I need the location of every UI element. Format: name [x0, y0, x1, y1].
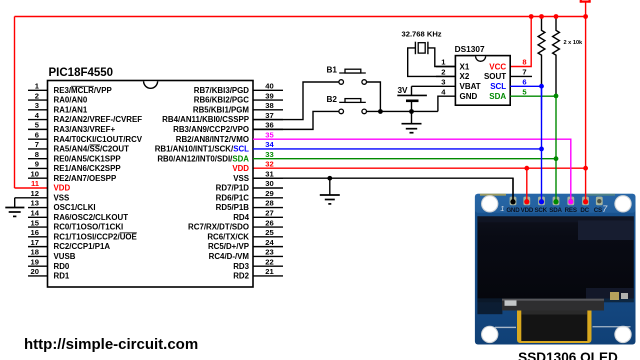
svg-text:RC5/D+/VP: RC5/D+/VP: [208, 242, 249, 251]
svg-text:2: 2: [35, 91, 39, 100]
resistor R1 10k (SCL pullup): [538, 17, 545, 87]
svg-text:3: 3: [35, 101, 39, 110]
svg-text:RD3: RD3: [233, 262, 249, 271]
ground at VSS pin31: [327, 176, 332, 181]
pin 38 right: [253, 109, 283, 111]
svg-text:CS: CS: [594, 207, 602, 214]
VDD power rail (red net): [15, 16, 586, 18]
node rail-R2 junction: [554, 14, 559, 19]
wire VBAT row: [412, 85, 456, 87]
svg-text:34: 34: [265, 140, 274, 149]
svg-text:RA1/AN1: RA1/AN1: [54, 105, 88, 114]
svg-text:VUSB: VUSB: [54, 252, 76, 261]
svg-text:6: 6: [35, 130, 39, 139]
node rail-DC junction: [583, 14, 588, 19]
svg-text:SDA: SDA: [549, 207, 562, 214]
svg-text:7: 7: [35, 140, 39, 149]
node OLED RES pad: [568, 199, 573, 204]
pin 12 left: [15, 197, 48, 199]
svg-text:SCL: SCL: [490, 82, 506, 91]
junction buttons: [378, 109, 383, 114]
svg-text:RD2: RD2: [233, 272, 249, 281]
svg-text:RD4: RD4: [233, 213, 249, 222]
wire VDD riser to DC: [585, 2, 587, 202]
battery B3 3V: [411, 86, 413, 95]
svg-text:13: 13: [31, 199, 39, 208]
pin 24 right: [253, 246, 283, 248]
node OLED GND pad: [510, 199, 515, 204]
svg-text:RC6/TX/CK: RC6/TX/CK: [207, 232, 249, 241]
svg-text:32: 32: [265, 160, 273, 169]
svg-text:37: 37: [265, 111, 273, 120]
svg-text:OSC1/CLKI: OSC1/CLKI: [54, 203, 96, 212]
svg-text:VSS: VSS: [233, 174, 249, 183]
pin 27 right: [253, 216, 283, 218]
pin 28 right: [253, 207, 283, 209]
wire crystal left to X2: [408, 48, 456, 77]
wire SCL vertical: [541, 86, 543, 202]
svg-text:RB3/AN9/CCP2/VPO: RB3/AN9/CCP2/VPO: [173, 125, 249, 134]
pin 40 right: [253, 89, 283, 91]
svg-text:RB5/KBI1/PGM: RB5/KBI1/PGM: [193, 105, 250, 114]
node OLED SCK pad: [539, 199, 544, 204]
svg-text:B1: B1: [327, 66, 338, 75]
svg-text:RB0/AN12/INT0/SDI/SDA: RB0/AN12/INT0/SDI/SDA: [157, 154, 249, 163]
svg-text:19: 19: [31, 257, 39, 266]
svg-text:RE1/AN6/CK2SPP: RE1/AN6/CK2SPP: [54, 164, 121, 173]
pin 14 left: [28, 216, 48, 218]
svg-text:GND: GND: [460, 92, 478, 101]
svg-text:RD0: RD0: [54, 262, 70, 271]
svg-text:RA0/AN0: RA0/AN0: [54, 96, 88, 105]
node OLED DC pad: [583, 199, 588, 204]
svg-text:RC4/D-/VM: RC4/D-/VM: [209, 252, 250, 261]
pin 25 right: [253, 236, 283, 238]
svg-text:18: 18: [31, 248, 39, 257]
svg-text:VDD: VDD: [54, 184, 71, 193]
svg-text:12: 12: [31, 189, 39, 198]
svg-text:SDA: SDA: [489, 92, 506, 101]
svg-text:30: 30: [265, 179, 273, 188]
svg-text:RC0/T1OSO/T1CKI: RC0/T1OSO/T1CKI: [54, 223, 124, 232]
svg-text:15: 15: [31, 218, 40, 227]
svg-text:3: 3: [441, 78, 445, 87]
svg-text:RA5/AN4/SS/C2OUT: RA5/AN4/SS/C2OUT: [54, 145, 130, 154]
wire crystal right to X1: [428, 48, 456, 67]
svg-text:21: 21: [265, 267, 274, 276]
svg-text:36: 36: [265, 121, 273, 130]
svg-text:11: 11: [31, 179, 40, 188]
svg-text:22: 22: [265, 257, 273, 266]
pin 19 left: [28, 265, 48, 267]
svg-text:http://simple-circuit.com: http://simple-circuit.com: [24, 336, 198, 353]
pin 36 right: [253, 128, 283, 130]
svg-text:SCK: SCK: [534, 207, 547, 214]
svg-text:RB7/KBI3/PGD: RB7/KBI3/PGD: [194, 86, 250, 95]
power symbol VDD top: [580, 1, 591, 3]
svg-text:2 x 10k: 2 x 10k: [564, 40, 584, 46]
DS1307 pin6 SCL: [510, 85, 541, 87]
pin 10 left: [28, 177, 48, 179]
svg-text:RA2/AN2/VREF-/CVREF: RA2/AN2/VREF-/CVREF: [54, 115, 143, 124]
wire B1 right to junction: [367, 82, 381, 112]
svg-text:RC2/CCP1/P1A: RC2/CCP1/P1A: [54, 242, 111, 251]
svg-text:RA3/AN3/VREF+: RA3/AN3/VREF+: [54, 125, 116, 134]
pin 6 left: [28, 138, 48, 140]
pin 31 right: [253, 177, 283, 179]
pin 29 right: [253, 197, 283, 199]
wire RES net (magenta) pin35 to OLED RES: [253, 139, 571, 202]
node OLED SDA pad: [553, 199, 558, 204]
svg-text:29: 29: [265, 189, 273, 198]
svg-text:VBAT: VBAT: [460, 82, 481, 91]
svg-text:RD6/P1C: RD6/P1C: [216, 193, 250, 202]
node SDA pin33 junction: [554, 156, 559, 161]
node OLED VDD pad: [524, 199, 529, 204]
pin 39 right: [253, 99, 283, 101]
svg-text:RD7/P1D: RD7/P1D: [216, 184, 250, 193]
svg-text:8: 8: [35, 150, 39, 159]
pin 21 right: [253, 275, 283, 277]
svg-text:1: 1: [500, 204, 504, 213]
pin 13 left: [28, 207, 48, 209]
svg-text:PIC18F4550: PIC18F4550: [49, 67, 114, 79]
pin 26 right: [253, 226, 283, 228]
pin 20 left: [28, 275, 48, 277]
svg-text:RE3/MCLR/VPP: RE3/MCLR/VPP: [54, 86, 112, 95]
pin 5 left: [28, 128, 48, 130]
svg-text:RE2/AN7/OESPP: RE2/AN7/OESPP: [54, 174, 117, 183]
svg-text:VCC: VCC: [489, 62, 506, 71]
svg-text:GND: GND: [506, 207, 520, 214]
svg-text:RB4/AN11/KBI0/CSSPP: RB4/AN11/KBI0/CSSPP: [162, 115, 249, 124]
svg-text:RD1: RD1: [54, 272, 70, 281]
svg-text:2: 2: [441, 68, 445, 77]
svg-text:14: 14: [31, 209, 40, 218]
svg-text:RC1/T1OSI/CCP2/UOE: RC1/T1OSI/CCP2/UOE: [54, 232, 137, 241]
svg-text:DC: DC: [580, 207, 589, 214]
svg-text:17: 17: [31, 238, 39, 247]
wire DS1307 VCC to rail: [510, 17, 531, 67]
svg-text:8: 8: [522, 58, 526, 67]
svg-text:35: 35: [265, 130, 274, 139]
node VDD-DC junction: [583, 166, 588, 171]
svg-text:7: 7: [522, 68, 526, 77]
node SCL-R1 junction: [539, 84, 544, 89]
SSD1306 OLED module: [475, 194, 636, 345]
pin 15 left: [28, 226, 48, 228]
pushbutton B2: [339, 99, 367, 114]
svg-text:24: 24: [265, 238, 274, 247]
svg-text:X2: X2: [460, 72, 470, 81]
svg-text:RE0/AN5/CK1SPP: RE0/AN5/CK1SPP: [54, 154, 121, 163]
svg-text:32.768 KHz: 32.768 KHz: [402, 29, 442, 38]
pin 8 left: [28, 158, 48, 160]
wire VSS pin31 to OLED GND: [253, 178, 513, 202]
pin 16 left: [28, 236, 48, 238]
svg-text:RES: RES: [565, 207, 577, 214]
svg-text:RA4/T0CKI/C1OUT/RCV: RA4/T0CKI/C1OUT/RCV: [54, 135, 143, 144]
pushbutton B1: [339, 69, 367, 84]
wire SDA vertical: [555, 96, 557, 202]
DS1307 pin1 X1: [436, 66, 455, 68]
svg-text:RD5/P1B: RD5/P1B: [216, 203, 250, 212]
IC notch: [144, 81, 158, 88]
svg-text:38: 38: [265, 101, 273, 110]
pin 3 left: [28, 109, 48, 111]
pin 9 left: [28, 167, 48, 169]
wire GND into OLED pad: [512, 178, 514, 202]
svg-text:RA6/OSC2/CLKOUT: RA6/OSC2/CLKOUT: [54, 213, 129, 222]
ground at VSS pin12: [14, 198, 16, 208]
resistor R2 10k (SDA pullup): [553, 17, 560, 96]
svg-text:16: 16: [31, 228, 39, 237]
wire SDA net (green) pin33 row: [253, 158, 556, 160]
svg-text:RC7/RX/DT/SDO: RC7/RX/DT/SDO: [188, 223, 249, 232]
wire PIC pin32 VDD row: [253, 167, 586, 169]
svg-text:26: 26: [265, 218, 273, 227]
svg-text:39: 39: [265, 91, 273, 100]
svg-text:25: 25: [265, 228, 274, 237]
pin 23 right: [253, 255, 283, 257]
svg-text:23: 23: [265, 248, 273, 257]
pin 7 left: [28, 148, 48, 150]
svg-text:VDD: VDD: [521, 207, 534, 214]
wire pin37 to B1: [253, 82, 339, 120]
svg-text:20: 20: [31, 267, 39, 276]
IC U2 DS1307 body: [455, 56, 510, 106]
svg-text:SOUT: SOUT: [484, 72, 506, 81]
svg-text:6: 6: [522, 78, 526, 87]
svg-text:X1: X1: [460, 62, 470, 71]
svg-text:DS1307: DS1307: [455, 44, 485, 54]
DS1307 pin7 SOUT: [510, 75, 532, 77]
wire SCL net (blue) pin34 row: [253, 148, 542, 150]
svg-text:40: 40: [265, 82, 273, 91]
pin 30 right: [253, 187, 283, 189]
svg-text:B2: B2: [327, 95, 338, 104]
svg-text:10: 10: [31, 169, 39, 178]
wire pin36 to B2: [253, 111, 339, 129]
pin 4 left: [28, 119, 48, 121]
wire B2 right to battery to DS1307 GND: [367, 110, 438, 112]
pin 2 left: [28, 99, 48, 101]
node rail-VCC junction: [529, 14, 534, 19]
svg-text:31: 31: [265, 169, 274, 178]
wire VDD drop to OLED VDD: [526, 168, 528, 202]
node SCL pin34 junction: [539, 147, 544, 152]
svg-text:SSD1306 OLED: SSD1306 OLED: [518, 350, 618, 360]
wire to DS1307 GND pin4: [438, 96, 456, 111]
svg-text:3V: 3V: [397, 86, 408, 95]
DS1307 pin5 SDA: [510, 95, 556, 97]
op-amp-sized IC U1 PIC18F4550 body: [48, 81, 254, 288]
svg-text:27: 27: [265, 209, 273, 218]
pin 1 left: [28, 89, 48, 91]
svg-text:28: 28: [265, 199, 273, 208]
pin 17 left: [28, 246, 48, 248]
svg-text:VDD: VDD: [232, 164, 249, 173]
node SDA-R2 junction: [554, 94, 559, 99]
ground battery: [411, 112, 413, 124]
pin 18 left: [28, 255, 48, 257]
svg-text:RB2/AN8/INT2/VMO: RB2/AN8/INT2/VMO: [176, 135, 249, 144]
pin 37 right: [253, 119, 283, 121]
wire SCL vertical overdraw: [541, 86, 543, 110]
svg-text:RB1/AN10/INT1/SCK/SCL: RB1/AN10/INT1/SCK/SCL: [155, 145, 249, 154]
node VDD-OLED junction: [524, 166, 529, 171]
svg-text:VSS: VSS: [54, 193, 70, 202]
DS1307 pin2 X2: [436, 75, 455, 77]
node rail-R1 junction: [539, 14, 544, 19]
svg-text:33: 33: [265, 150, 273, 159]
pin 22 right: [253, 265, 283, 267]
svg-text:9: 9: [35, 160, 39, 169]
svg-text:RB6/KBI2/PGC: RB6/KBI2/PGC: [194, 96, 250, 105]
